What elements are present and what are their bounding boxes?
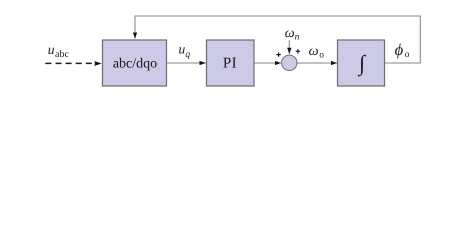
svg-text:o: o: [319, 51, 324, 61]
block abc/dqo: [103, 40, 167, 86]
svg-text:ϕ: ϕ: [395, 40, 404, 59]
block PI: [207, 40, 255, 86]
plus sign right of junction: [296, 49, 300, 53]
svg-text:abc: abc: [55, 49, 69, 60]
svg-text:o: o: [405, 50, 410, 60]
svg-text:ω: ω: [309, 44, 319, 59]
wire: PI to summing junction with arrowhead: [254, 62, 281, 64]
svg-text:PI: PI: [223, 56, 237, 72]
wire: dashed input line u_abc: [45, 62, 92, 64]
wire: summing junction to integrator with arrowhead: [297, 62, 337, 64]
svg-text:abc/dqo: abc/dqo: [113, 56, 157, 71]
svg-text:ω: ω: [285, 26, 295, 41]
svg-text:n: n: [295, 33, 300, 43]
svg-text:u: u: [48, 42, 55, 57]
summing junction circle: [282, 55, 297, 70]
svg-text:q: q: [185, 50, 190, 60]
wire: abc/dqo to PI with arrowhead: [167, 62, 206, 64]
block integrator: [338, 40, 385, 86]
wire: feedback path from integrator output up over the top and down into abc/dqo: [135, 16, 420, 63]
wire: omega_n vertical drop into summing junction: [288, 40, 290, 54]
plus sign left of junction: [276, 52, 280, 56]
